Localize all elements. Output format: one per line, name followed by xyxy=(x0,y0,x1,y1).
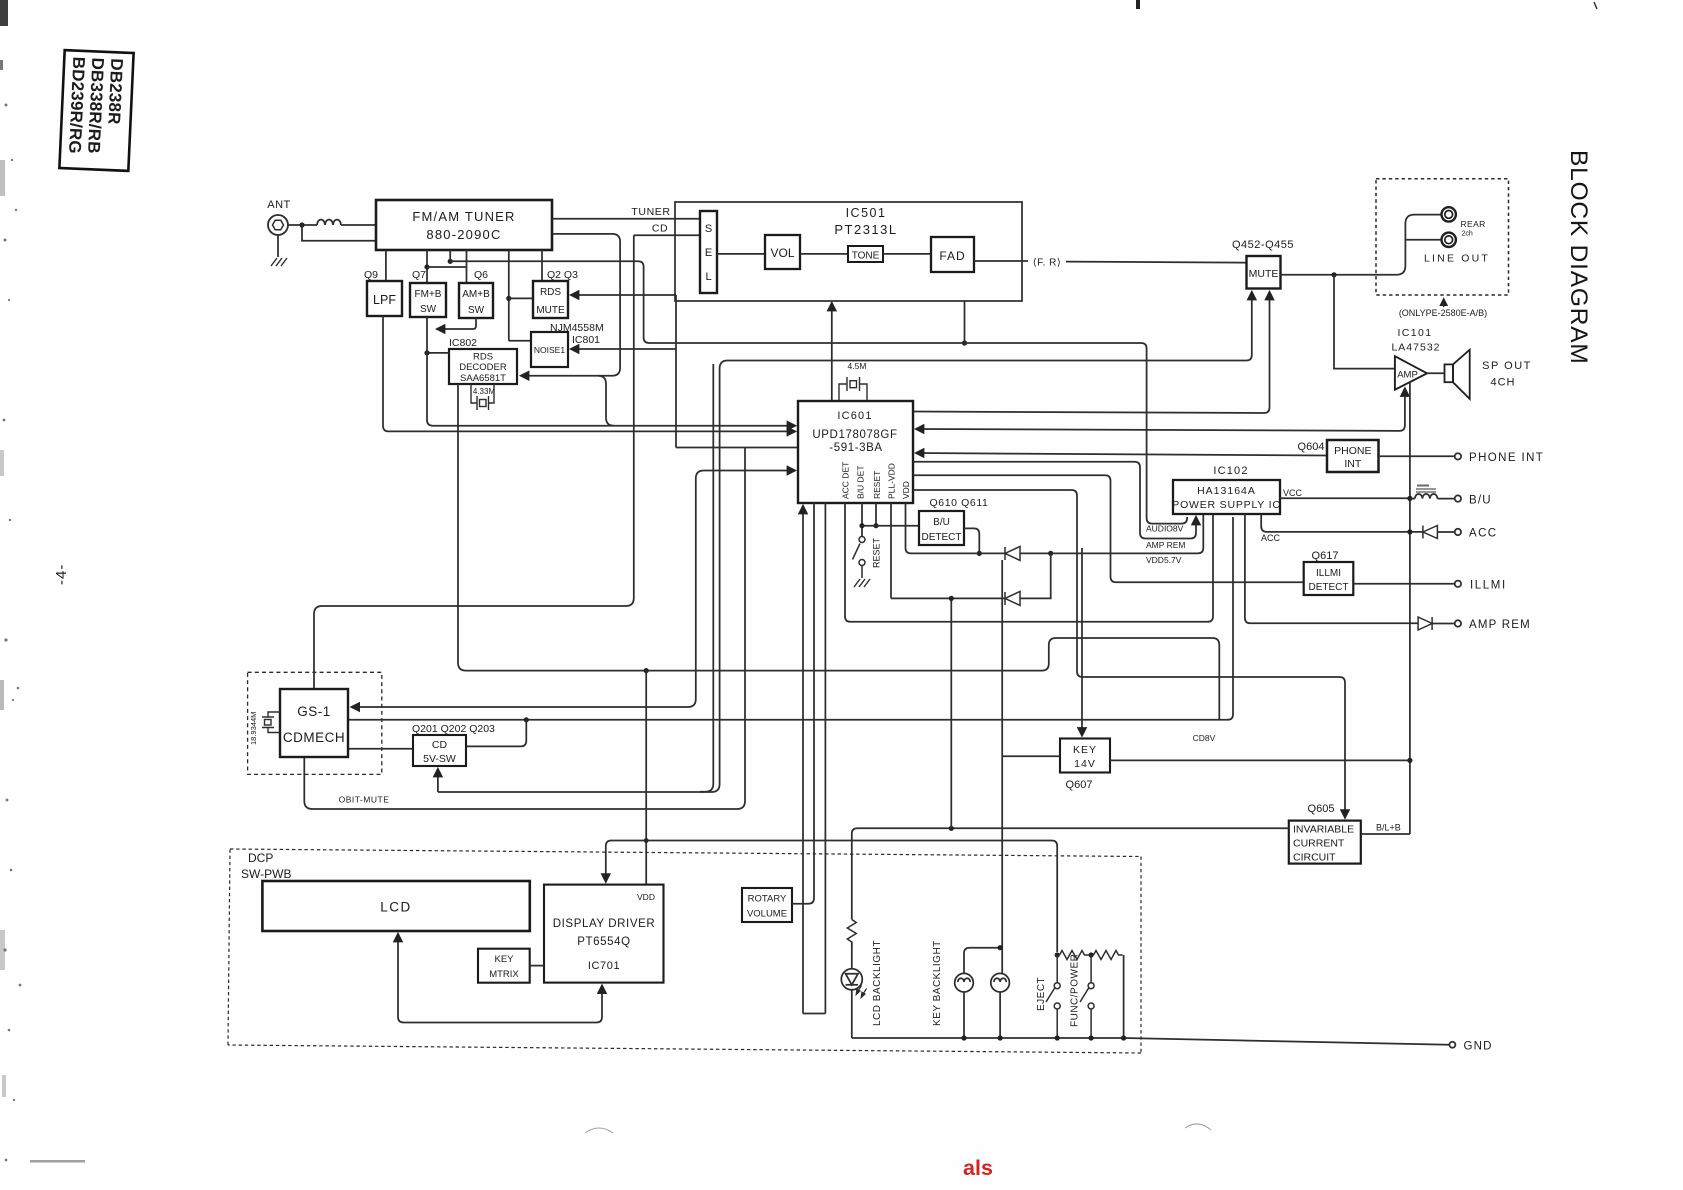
svg-text:ACC DET: ACC DET xyxy=(841,462,851,499)
wire VOL to TONE xyxy=(800,253,848,255)
microcontroller IC601 UPD178078GF-591-3BA xyxy=(798,401,913,503)
node RESET xyxy=(873,523,878,528)
wire VDD5.7V to power supply xyxy=(1051,514,1204,553)
wire VDD down to display driver xyxy=(645,671,647,885)
svg-text:14V: 14V xyxy=(1074,758,1096,770)
svg-text:Q604: Q604 xyxy=(1298,441,1325,453)
wire tuner bottom to LPF xyxy=(385,250,387,281)
wire GS-1 to CD 5V-SW xyxy=(348,748,413,750)
wire key mtrix to display driver xyxy=(530,965,544,967)
wire antenna to coil xyxy=(288,224,317,226)
svg-text:MUTE: MUTE xyxy=(536,305,565,316)
block VOL xyxy=(765,235,800,269)
svg-text:⟨F. R⟩: ⟨F. R⟩ xyxy=(1033,258,1062,269)
wire Q605 B/L+B output to bus xyxy=(1361,833,1410,835)
wire OBIT-MUTE xyxy=(304,448,745,810)
svg-text:MUTE: MUTE xyxy=(1249,268,1279,280)
svg-text:(ONLYPE-2580E-A/B): (ONLYPE-2580E-A/B) xyxy=(1399,308,1487,318)
diode D611 xyxy=(1005,591,1020,605)
svg-text:IC102: IC102 xyxy=(1213,465,1248,477)
IC501 PT2313L outer block xyxy=(675,202,1022,301)
svg-text:4.33M: 4.33M xyxy=(473,387,496,396)
svg-text:LCD: LCD xyxy=(380,900,412,915)
svg-text:18.9344M: 18.9344M xyxy=(249,712,258,745)
dashed enclosure GS-1 CD mech xyxy=(248,672,382,774)
wire B/U DET pin down xyxy=(861,503,863,537)
wire CD line down to CD mech xyxy=(314,235,634,689)
switch RESET xyxy=(853,537,866,579)
svg-text:IC501: IC501 xyxy=(846,206,887,220)
scan noise specks left edge xyxy=(0,0,1211,1163)
svg-text:Q201 Q202 Q203: Q201 Q202 Q203 xyxy=(412,723,495,735)
wire AMP REM into power supply xyxy=(913,462,1196,539)
svg-text:5V-SW: 5V-SW xyxy=(423,753,456,765)
svg-text:RESET: RESET xyxy=(872,537,882,568)
wire aux pins join xyxy=(803,1013,825,1015)
node rail func xyxy=(1089,1035,1094,1040)
model number box (tilted, top-left) xyxy=(59,50,133,171)
wire antenna to ground xyxy=(277,235,279,257)
dashed enclosure LINE OUT xyxy=(1376,179,1509,295)
wire AM+B bottom arrow xyxy=(437,318,476,329)
node rail lamp2 xyxy=(998,1035,1003,1040)
svg-text:DETECT: DETECT xyxy=(1309,582,1349,593)
svg-text:LINE OUT: LINE OUT xyxy=(1424,253,1490,265)
svg-text:GND: GND xyxy=(1464,1041,1493,1053)
wire ILLMI detect feed from IC601 xyxy=(913,475,1304,582)
svg-text:VDD: VDD xyxy=(901,481,911,499)
wire node down to diode D611 xyxy=(1020,553,1051,598)
svg-text:RESET: RESET xyxy=(872,471,882,499)
inductor L (antenna coil) xyxy=(317,220,341,225)
svg-text:ANT: ANT xyxy=(267,199,291,211)
wire to NOISE1 left lower xyxy=(509,340,531,342)
svg-text:GS-1: GS-1 xyxy=(297,704,331,719)
stray mark top right xyxy=(1594,2,1597,9)
dashed enclosure DCP SW-PWB xyxy=(228,849,1141,1053)
svg-text:Q617: Q617 xyxy=(1312,550,1339,562)
diode D610 xyxy=(1005,546,1020,560)
wire RESET pin down xyxy=(875,503,877,526)
wire FM+B to RDS decoder xyxy=(427,352,449,354)
svg-text:B/U DET: B/U DET xyxy=(856,465,866,499)
wire B/U DETECT output to diode D610 xyxy=(964,528,979,553)
ground rail xyxy=(852,1038,1449,1045)
svg-text:IC701: IC701 xyxy=(588,960,620,972)
node on FM+B feed xyxy=(424,264,429,269)
node diode join xyxy=(1048,551,1053,556)
wire RDS bus to IC601 left xyxy=(676,447,798,449)
lamp key backlight 2 xyxy=(991,973,1010,992)
wire decoder output long run xyxy=(458,384,1219,720)
svg-text:als: als xyxy=(963,1156,993,1180)
wire SEL to VOL xyxy=(717,253,765,255)
svg-text:DECODER: DECODER xyxy=(459,362,507,373)
wire main supply bus from amp down xyxy=(1409,382,1411,834)
LED LCD backlight xyxy=(841,969,862,990)
resistor R1 on switch rail xyxy=(1060,951,1090,960)
wire amp enable arrow from IC601 xyxy=(916,389,1405,431)
wire IC501 audio out branch xyxy=(964,301,966,343)
svg-text:MTRIX: MTRIX xyxy=(489,969,519,980)
wire branch to AM+B SW xyxy=(427,250,467,283)
node key line on bus xyxy=(1407,758,1412,763)
wire ACC DET pin to power supply xyxy=(845,503,1213,622)
svg-text:S: S xyxy=(705,223,712,235)
wire diode to ACC terminal xyxy=(1437,531,1454,533)
svg-text:ROTARY: ROTARY xyxy=(748,894,787,905)
chassis ground below antenna xyxy=(271,258,287,266)
wire TONE to FAD xyxy=(883,253,931,255)
svg-text:VOL: VOL xyxy=(770,246,794,260)
wire FM+B down to IC601 xyxy=(427,317,795,426)
switch FUNC/POWER xyxy=(1080,955,1094,1038)
svg-text:SP OUT: SP OUT xyxy=(1482,360,1532,372)
wire TUNER input xyxy=(552,218,700,220)
node FM+B bottom branch xyxy=(424,350,429,355)
svg-text:SAA6581T: SAA6581T xyxy=(460,373,506,384)
terminal ILLMI xyxy=(1455,581,1461,587)
svg-text:INT: INT xyxy=(1344,458,1362,470)
wire IC601 aux pin down left xyxy=(802,506,804,1014)
wire key 14V arrow feed xyxy=(1081,548,1083,736)
svg-text:PT2313L: PT2313L xyxy=(834,222,897,237)
svg-text:CD: CD xyxy=(432,739,448,751)
svg-text:ILLMI: ILLMI xyxy=(1316,568,1341,579)
wire lamp feed down xyxy=(1001,560,1003,973)
wire ILLMI to terminal xyxy=(1353,583,1454,585)
wire NOISE1 right input xyxy=(571,348,676,350)
resistor for LCD backlight xyxy=(847,920,856,949)
RCA jack rear lower xyxy=(1442,233,1456,247)
block KEY 14V Q607 xyxy=(1060,739,1110,773)
svg-text:Q9: Q9 xyxy=(364,269,378,281)
wire LED to ground rail xyxy=(851,990,853,1038)
svg-text:VOLUME: VOLUME xyxy=(747,909,787,920)
node VCC on bus xyxy=(1407,496,1412,501)
svg-text:FAD: FAD xyxy=(939,249,965,263)
diode AMP REM xyxy=(1418,617,1432,630)
wire key 14V left input and lamp feed xyxy=(1002,755,1060,757)
svg-text:TONE: TONE xyxy=(852,251,880,262)
LED emission arrows xyxy=(856,986,866,998)
svg-text:AM+B: AM+B xyxy=(462,289,490,300)
diode ACC xyxy=(1423,526,1438,539)
svg-text:DETECT: DETECT xyxy=(922,532,962,543)
wire LCD to display driver loop xyxy=(398,934,602,1023)
wire antenna AM branch xyxy=(302,225,376,241)
svg-text:880-2090C: 880-2090C xyxy=(426,227,501,242)
wire tuner bottom to RDS MUTE top xyxy=(541,250,543,281)
svg-text:Q7: Q7 xyxy=(412,269,426,281)
node display feed split xyxy=(644,838,649,843)
wire coil to tuner xyxy=(341,224,376,226)
node on audio8v run xyxy=(962,340,967,345)
svg-text:ACC: ACC xyxy=(1469,528,1497,540)
wire lamp1 to ground rail xyxy=(963,992,965,1038)
svg-text:CURRENT: CURRENT xyxy=(1293,838,1345,850)
svg-text:BD239R/RG: BD239R/RG xyxy=(65,56,88,154)
svg-text:SW: SW xyxy=(420,304,437,315)
wire RDS mute right input from IC601 xyxy=(571,294,676,296)
svg-text:RDS: RDS xyxy=(540,287,561,298)
svg-text:E: E xyxy=(705,247,712,259)
svg-text:IC801: IC801 xyxy=(572,334,600,346)
wire tuner mute/AUDIO8V run xyxy=(450,261,1187,523)
svg-text:HA13164A: HA13164A xyxy=(1197,485,1256,497)
arrow annotation into line out box xyxy=(1443,299,1445,307)
svg-text:IC101: IC101 xyxy=(1397,327,1432,339)
wire pins to B/U DETECT xyxy=(862,525,919,527)
wire resistor to LED xyxy=(851,942,853,969)
block TONE xyxy=(848,246,883,262)
wire B/U detect bottom down xyxy=(950,598,952,828)
wire bus to B/U inductor xyxy=(1410,498,1415,500)
svg-text:Q607: Q607 xyxy=(1066,779,1093,791)
wire KEY output to bus xyxy=(1110,759,1410,761)
svg-text:IC802: IC802 xyxy=(449,337,477,349)
wire key 14V feed from IC601 xyxy=(913,490,1345,818)
svg-text:LPF: LPF xyxy=(373,293,396,307)
node mute output branch xyxy=(1331,272,1336,277)
svg-text:UPD178078GF: UPD178078GF xyxy=(812,429,897,441)
wire tuner second output to RDS decoder xyxy=(521,234,620,376)
svg-text:PLL-VDD: PLL-VDD xyxy=(887,463,897,499)
wire second mute control branch xyxy=(700,364,713,792)
wire LPF down to IC601 xyxy=(383,316,795,431)
svg-text:LA47532: LA47532 xyxy=(1391,342,1440,354)
wire diode to node xyxy=(1020,552,1051,554)
svg-text:KEY: KEY xyxy=(494,954,514,965)
svg-text:-591-3BA: -591-3BA xyxy=(829,442,882,454)
svg-text:VDD: VDD xyxy=(637,892,655,902)
svg-text:AUDIO8V: AUDIO8V xyxy=(1146,524,1184,534)
terminal GND xyxy=(1449,1042,1455,1048)
svg-text:Q605: Q605 xyxy=(1308,803,1335,815)
svg-text:BLOCK DIAGRAM: BLOCK DIAGRAM xyxy=(1565,150,1592,365)
svg-text:VDD5.7V: VDD5.7V xyxy=(1146,555,1182,565)
wire PLL-VDD pin down to key line xyxy=(890,503,892,598)
wire lamp2 to ground rail xyxy=(999,992,1001,1038)
wire PHONE INT line from IC601 xyxy=(916,453,1327,456)
wire branch to lower RCA jack xyxy=(1405,239,1441,241)
node rail eject xyxy=(1055,1035,1060,1040)
wire FAD output F.R to mute xyxy=(974,260,1028,262)
inductor B/U choke xyxy=(1415,494,1438,499)
block DISPLAY DRIVER PT6554Q IC701 xyxy=(544,885,664,983)
node B/U DET xyxy=(859,523,864,528)
block GS-1 CDMECH xyxy=(280,689,348,757)
svg-text:AMP REM: AMP REM xyxy=(1146,540,1186,550)
wire tuner to NOISE1 feed xyxy=(508,250,510,341)
node B/U detect joins diode line xyxy=(977,551,982,556)
wire tuner bottom to FM+B SW xyxy=(426,250,428,283)
op-amp AMP triangle xyxy=(1395,356,1427,390)
svg-text:AMP REM: AMP REM xyxy=(1469,619,1531,631)
svg-text:DISPLAY DRIVER: DISPLAY DRIVER xyxy=(553,918,656,930)
block KEY MTRIX xyxy=(478,949,530,983)
node display VDD branch xyxy=(644,668,649,673)
svg-text:B/L+B: B/L+B xyxy=(1376,823,1401,833)
svg-text:DCP: DCP xyxy=(248,851,273,865)
svg-text:FUNC/POWER: FUNC/POWER xyxy=(1070,954,1081,1027)
svg-text:POWER SUPPLY IC: POWER SUPPLY IC xyxy=(1172,499,1280,511)
node antenna junction xyxy=(299,222,304,227)
terminal PHONE INT xyxy=(1455,453,1461,459)
svg-text:EJECT: EJECT xyxy=(1036,977,1047,1011)
wire CD8V run xyxy=(348,517,1233,720)
svg-text:RDS: RDS xyxy=(473,352,493,363)
svg-text:REAR: REAR xyxy=(1461,219,1486,229)
wire VDD pin big loop to Q605 xyxy=(906,503,1006,553)
wire rotary volume up to IC601 xyxy=(792,503,814,904)
svg-text:Q2 Q3: Q2 Q3 xyxy=(547,269,578,281)
svg-text:CD: CD xyxy=(652,223,668,235)
svg-text:ACC: ACC xyxy=(1261,533,1281,543)
wire GS-1 data to IC601 xyxy=(352,471,795,708)
svg-text:L: L xyxy=(705,271,711,283)
wire CD input to SEL xyxy=(634,234,700,236)
wire mute control A from CD-SW line xyxy=(438,292,1252,792)
block FAD xyxy=(931,237,974,272)
RCA jack rear upper xyxy=(1442,207,1456,221)
node rail resistor end xyxy=(1121,1035,1126,1040)
wire tuner bottom short stub xyxy=(449,250,451,261)
svg-text:TUNER: TUNER xyxy=(631,206,670,218)
svg-text:PHONE: PHONE xyxy=(1334,445,1371,457)
wire inductor to terminal xyxy=(1437,498,1454,500)
terminal ACC xyxy=(1455,529,1461,535)
svg-text:CD8V: CD8V xyxy=(1193,733,1216,743)
node CD8V branch to CD switch xyxy=(524,717,529,722)
svg-text:SW-PWB: SW-PWB xyxy=(241,867,291,881)
wire RDS vertical bus xyxy=(675,295,677,448)
FM/AM tuner block 880-2090C xyxy=(376,200,552,250)
switch EJECT xyxy=(1046,955,1060,1038)
wire mute control B from IC601 xyxy=(913,292,1270,413)
wire AMP REM output from power supply xyxy=(1245,514,1418,623)
node lamps join xyxy=(998,945,1003,950)
wire lamp1 top loop to lamp2 xyxy=(964,948,1000,974)
node on mute feed line xyxy=(448,259,453,264)
wire branch down to IC601 line xyxy=(598,376,614,426)
svg-text:4.5M: 4.5M xyxy=(848,361,867,371)
svg-text:KEY: KEY xyxy=(1073,744,1097,756)
wire MUTE output to line out and amp xyxy=(1281,215,1442,275)
wire IC601 control bus up to IC501 xyxy=(831,303,833,401)
svg-text:FM/AM TUNER: FM/AM TUNER xyxy=(412,209,515,224)
svg-text:FM+B: FM+B xyxy=(415,289,442,300)
svg-text:B/U: B/U xyxy=(933,517,950,528)
terminal AMP REM xyxy=(1455,620,1461,626)
svg-text:NOISE1: NOISE1 xyxy=(534,345,565,355)
svg-text:VCC: VCC xyxy=(1283,488,1303,498)
resistor R2 on switch rail xyxy=(1094,951,1123,960)
node switch rail left xyxy=(1055,952,1060,957)
svg-text:OBIT-MUTE: OBIT-MUTE xyxy=(339,795,390,805)
antenna connector symbol xyxy=(268,215,288,235)
svg-text:Q6: Q6 xyxy=(474,269,488,281)
wire LCD backlight feed xyxy=(852,828,1289,919)
wire rail end down to ground xyxy=(1123,955,1125,1038)
svg-text:CIRCUIT: CIRCUIT xyxy=(1293,852,1336,864)
wire amp to speaker xyxy=(1427,372,1445,374)
wire mute node down to AMP input xyxy=(1334,275,1395,369)
svg-text:PT6554Q: PT6554Q xyxy=(577,936,630,948)
svg-text:ILLMI: ILLMI xyxy=(1470,580,1507,592)
svg-text:-4-: -4- xyxy=(53,564,70,585)
block ROTARY VOLUME xyxy=(742,888,792,922)
wire IC601 aux pin down right xyxy=(824,503,826,1014)
svg-text:CDMECH: CDMECH xyxy=(283,730,345,745)
node RDS mute branch xyxy=(506,296,511,301)
svg-text:AMP: AMP xyxy=(1397,370,1418,381)
svg-text:SW: SW xyxy=(468,305,485,316)
ground below reset switch xyxy=(854,579,870,587)
svg-text:Q610 Q611: Q610 Q611 xyxy=(930,497,989,509)
wire branch arrow into display driver xyxy=(606,841,646,882)
node rail lamp1 xyxy=(961,1035,966,1040)
svg-text:2ch: 2ch xyxy=(1462,231,1473,238)
wire switch rail feed from VDD line xyxy=(646,841,1057,953)
svg-text:PHONE INT: PHONE INT xyxy=(1469,452,1544,464)
svg-text:4CH: 4CH xyxy=(1490,377,1515,389)
svg-text:INVARIABLE: INVARIABLE xyxy=(1293,824,1354,836)
wire branch to RDS MUTE left xyxy=(509,297,533,299)
node ACC on bus xyxy=(1407,529,1412,534)
lamp key backlight 1 xyxy=(955,973,974,992)
block LCD xyxy=(262,881,529,931)
svg-text:IC601: IC601 xyxy=(837,410,872,422)
wire phone int to terminal xyxy=(1379,455,1455,457)
svg-text:KEY BACKLIGHT: KEY BACKLIGHT xyxy=(932,940,943,1026)
svg-text:LCD BACKLIGHT: LCD BACKLIGHT xyxy=(872,940,883,1026)
wire diode D611 to PLL-VDD line xyxy=(891,597,1005,599)
wire diode to AMP REM terminal xyxy=(1432,623,1455,625)
node switch rail mid xyxy=(1089,952,1094,957)
node on diode line xyxy=(949,596,954,601)
wire branch to CD 5V-SW xyxy=(466,720,526,747)
selector SEL xyxy=(700,211,717,293)
arrow into CD 5V-SW bottom xyxy=(437,769,439,792)
svg-text:B/U: B/U xyxy=(1469,495,1492,507)
speaker SP OUT 4CH xyxy=(1445,350,1470,399)
terminal B/U xyxy=(1455,495,1461,501)
svg-text:Q452-Q455: Q452-Q455 xyxy=(1232,239,1294,251)
node B/U detect sense tap xyxy=(949,826,954,831)
